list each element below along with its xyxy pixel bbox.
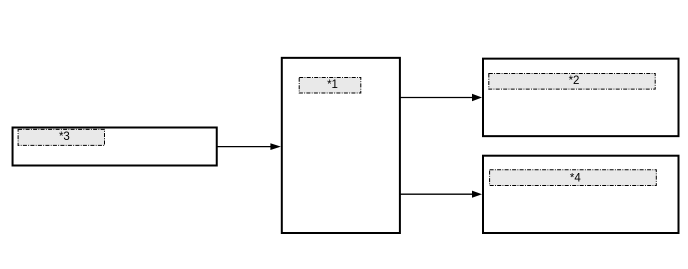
arrowhead into top-right box bbox=[472, 94, 482, 101]
block: central box bbox=[282, 58, 400, 233]
block: left source box bbox=[13, 128, 217, 166]
arrowhead into central box bbox=[270, 143, 281, 150]
svg-text:*1: *1 bbox=[327, 79, 338, 91]
callout *3 box bbox=[18, 129, 104, 145]
callout *2 box bbox=[489, 74, 655, 90]
wire: central box to bottom-right box bbox=[401, 193, 474, 195]
callout *4 box bbox=[490, 170, 657, 186]
block: top-right box bbox=[483, 59, 679, 136]
svg-text:*4: *4 bbox=[570, 173, 581, 185]
wire: left box to central box bbox=[217, 146, 272, 148]
wire: central box to top-right box bbox=[401, 97, 474, 99]
arrowhead into bottom-right box bbox=[472, 191, 482, 198]
svg-text:*3: *3 bbox=[59, 131, 70, 143]
callout *1 box bbox=[299, 78, 361, 94]
svg-text:*2: *2 bbox=[569, 75, 580, 87]
block: bottom-right box bbox=[483, 156, 679, 233]
